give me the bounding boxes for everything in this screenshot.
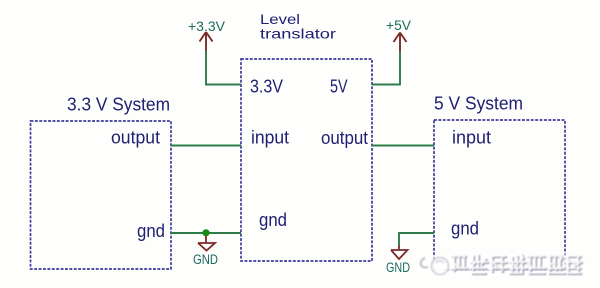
- svg-text:input: input: [452, 128, 491, 148]
- svg-text:GND: GND: [386, 260, 410, 275]
- svg-text:translator: translator: [260, 26, 336, 42]
- watermark logo swan: [421, 258, 449, 275]
- block Level translator box: [241, 59, 372, 261]
- svg-text:+5V: +5V: [386, 18, 411, 33]
- svg-text:output: output: [321, 128, 368, 148]
- watermark text strokes: [451, 254, 583, 275]
- svg-text:5V: 5V: [330, 77, 348, 97]
- block 3.3V System box: [31, 121, 172, 269]
- svg-text:+3.3V: +3.3V: [188, 19, 225, 34]
- wire +3.3V net: [206, 51, 241, 85]
- watermark background glow: [426, 252, 584, 278]
- wire gnd net right: [399, 233, 434, 245]
- svg-text:gnd: gnd: [137, 221, 165, 241]
- ground symbol GND right: [391, 245, 408, 259]
- block 5 V System box: [434, 120, 565, 270]
- svg-text:input: input: [251, 128, 289, 148]
- svg-text:output: output: [111, 128, 160, 148]
- wire output to input (left): [171, 145, 241, 147]
- svg-text:gnd: gnd: [451, 219, 479, 239]
- junction dot gnd net: [202, 229, 209, 236]
- svg-text:5 V System: 5 V System: [434, 94, 523, 114]
- wire output to input (right): [372, 145, 434, 147]
- svg-text:GND: GND: [193, 252, 218, 267]
- svg-text:3.3V: 3.3V: [250, 77, 283, 97]
- wire +5V net: [372, 51, 400, 85]
- power symbol +3.3V arrow: [200, 32, 213, 51]
- ground symbol GND left: [198, 236, 215, 251]
- svg-text:3.3 V System: 3.3 V System: [67, 95, 170, 115]
- svg-text:gnd: gnd: [259, 210, 287, 230]
- power symbol +5V arrow: [394, 33, 407, 52]
- wire gnd net left: [171, 232, 241, 234]
